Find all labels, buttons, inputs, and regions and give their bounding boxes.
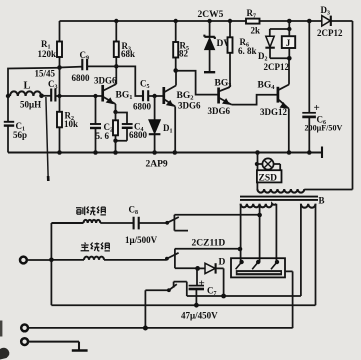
svg-text:L: L <box>24 81 31 92</box>
inductor auxiliary winding <box>51 220 100 223</box>
node bus-R5 <box>174 19 178 23</box>
terminal mains input upper <box>20 257 27 264</box>
resistor R2 <box>57 96 78 153</box>
svg-text:2CP12: 2CP12 <box>264 62 290 72</box>
capacitor C9 feedback 6800 <box>60 50 91 83</box>
wire rectifier return to winding <box>300 204 302 296</box>
wire earth lead <box>28 342 79 351</box>
capacitor C6 electrolytic 200uF/50V <box>302 21 342 153</box>
terminal mains lower 2 <box>21 338 28 345</box>
wire right rail from D3 down to transformer <box>304 21 352 190</box>
node gnd-BG4e <box>287 150 292 155</box>
resistor R7 2k (inline on bus) <box>246 8 260 36</box>
node D cathode - S3 wire <box>221 294 226 299</box>
svg-text:2CW5: 2CW5 <box>198 10 224 20</box>
svg-text:3DG6: 3DG6 <box>94 76 117 86</box>
ground earth bar <box>72 349 88 351</box>
resistor R1 <box>38 21 63 68</box>
node emitter BG1 <box>113 110 117 114</box>
node rail-mains <box>49 258 54 263</box>
svg-text:6800: 6800 <box>72 73 91 83</box>
node gnd-R2 <box>57 150 62 155</box>
svg-text:68k: 68k <box>121 49 135 59</box>
wire left rail lower section <box>50 223 52 305</box>
svg-text:B: B <box>319 196 325 206</box>
svg-text:6800: 6800 <box>129 130 148 140</box>
svg-text:5. 6: 5. 6 <box>96 131 110 141</box>
svg-text:ZSD: ZSD <box>259 173 278 183</box>
node collector-C9 feedback <box>114 64 118 68</box>
svg-text:3DG6: 3DG6 <box>178 101 201 111</box>
wire bottom bus to winding right lead <box>51 204 315 305</box>
node C7 minus <box>194 303 199 308</box>
relay contact box <box>231 258 285 277</box>
svg-text:J: J <box>286 38 291 48</box>
resistor R5 82 <box>173 21 189 71</box>
wire BG3 emitter to BG4 base <box>232 95 278 105</box>
wire mains bus lower <box>28 327 293 329</box>
terminal mains lower 1 <box>21 325 28 332</box>
wire J/D2 top branch <box>270 21 290 36</box>
svg-text:47μ/450V: 47μ/450V <box>181 311 218 321</box>
capacitor C1 56p <box>4 96 27 153</box>
wire feedback to C5 <box>87 66 143 96</box>
lamp ZSD <box>255 153 282 184</box>
node tank top-left <box>6 94 10 98</box>
svg-text:2k: 2k <box>251 26 261 36</box>
node center tap <box>257 213 262 218</box>
wire node A to left rail <box>8 68 60 96</box>
wire relay box to bottom bus <box>285 271 293 328</box>
node L-C3 <box>39 94 44 99</box>
scan smudge left edge <box>0 321 2 337</box>
node rectifier input <box>195 266 200 271</box>
scan blob bottom-left corner <box>0 348 9 360</box>
node gnd-ZSD <box>255 150 260 155</box>
capacitor C3 <box>42 79 58 102</box>
node S3 feed <box>143 326 148 331</box>
svg-text:200μF/50V: 200μF/50V <box>305 124 343 133</box>
node gnd-R4C4 <box>113 150 118 155</box>
svg-text:50μH: 50μH <box>20 100 41 110</box>
svg-text:1μ/500V: 1μ/500V <box>125 235 158 245</box>
resistor R3 <box>114 21 135 66</box>
wire winding right lead <box>275 204 277 262</box>
svg-text:+: + <box>314 102 320 114</box>
node base-C2 <box>93 94 97 98</box>
label fu raozu (auxiliary winding) <box>76 207 106 216</box>
svg-text:15/45: 15/45 <box>35 69 56 79</box>
svg-text:82: 82 <box>179 49 189 59</box>
node J bottom <box>287 56 292 61</box>
node emitter net bottom <box>113 139 117 143</box>
node bus-R3 <box>114 19 118 23</box>
transformer B core <box>240 197 318 200</box>
transistor BG1 3DG6 <box>94 66 132 112</box>
svg-text:3DG12: 3DG12 <box>260 107 288 117</box>
diode D 2CZ11D <box>198 258 226 297</box>
label zhu raozu (main winding) <box>81 243 110 251</box>
transformer B primary winding <box>257 182 304 192</box>
node base-divider <box>57 94 61 98</box>
inductor L 50uH <box>10 81 41 110</box>
node gnd-BG2e <box>173 150 178 155</box>
node bus-J <box>287 19 292 24</box>
diode D2 2CP12 <box>258 36 289 72</box>
wire center tap lead <box>259 204 261 262</box>
node A (R1/tank/feedback junction) <box>57 65 62 70</box>
transistor BG2 3DG6 <box>164 71 201 153</box>
switch contact S1 (relay contact, aux winding) <box>165 215 259 231</box>
node gnd-C6 <box>307 150 312 155</box>
wire BG1 base line <box>55 95 102 97</box>
diode D3 2CP12 <box>317 5 343 38</box>
svg-text:10k: 10k <box>64 119 78 129</box>
node bus-DW <box>207 19 211 23</box>
wire mains to switch S2 <box>27 259 84 261</box>
capacitor C8 1u/500V <box>100 205 167 246</box>
svg-text:2CZ11D: 2CZ11D <box>192 239 226 249</box>
node gnd-C2 <box>93 150 98 155</box>
resistor R6 6.8k <box>228 21 257 87</box>
wire winding left lead <box>240 204 242 262</box>
zener diode DW 2CW5 <box>204 21 233 72</box>
svg-text:56p: 56p <box>13 130 27 140</box>
node J top <box>287 27 291 31</box>
wire gimmick stub down from L-C3 node <box>46 97 48 176</box>
svg-text:120k: 120k <box>38 49 57 59</box>
node BG2 base - D1 <box>152 94 156 98</box>
svg-text:6800: 6800 <box>133 102 152 112</box>
diode D1 2AP9 <box>146 96 173 170</box>
node bus-R6 <box>228 19 232 23</box>
capacitor C4 6800 <box>116 113 148 141</box>
wire top supply bus <box>60 20 353 22</box>
svg-text:D: D <box>219 258 226 268</box>
node gnd-D1 <box>152 150 157 155</box>
svg-text:+: + <box>199 278 205 290</box>
inductor main winding <box>84 257 104 260</box>
wire divider drop from node A <box>59 68 61 97</box>
svg-text:3DG6: 3DG6 <box>208 106 231 116</box>
relay coil J <box>282 29 295 58</box>
svg-text:6. 8k: 6. 8k <box>238 46 257 56</box>
transistor BG3 3DG6 <box>208 79 233 117</box>
capacitor C2 5.6 <box>90 96 113 153</box>
resistor R4 (emitter) <box>113 112 118 141</box>
transformer secondary winding left (center tapped) <box>241 204 277 208</box>
switch contact S2 (relay contact, main winding) <box>165 249 240 269</box>
capacitor C5 coupling 6800 <box>133 79 163 112</box>
transformer secondary winding right <box>301 204 316 208</box>
wire ground bus upper section <box>8 151 322 153</box>
node S2 output <box>238 247 243 252</box>
transistor BG4 3DG12 <box>258 58 290 152</box>
node bus-C6 <box>307 19 312 24</box>
wire BG2 collector to BG3 base <box>176 71 218 95</box>
capacitor C7 electrolytic 47u/450V <box>181 268 218 320</box>
switch contact S3 (relay contact) <box>145 282 301 329</box>
svg-text:2AP9: 2AP9 <box>146 160 168 170</box>
svg-text:2CP12: 2CP12 <box>317 28 343 38</box>
node BG2 collector <box>173 68 178 73</box>
